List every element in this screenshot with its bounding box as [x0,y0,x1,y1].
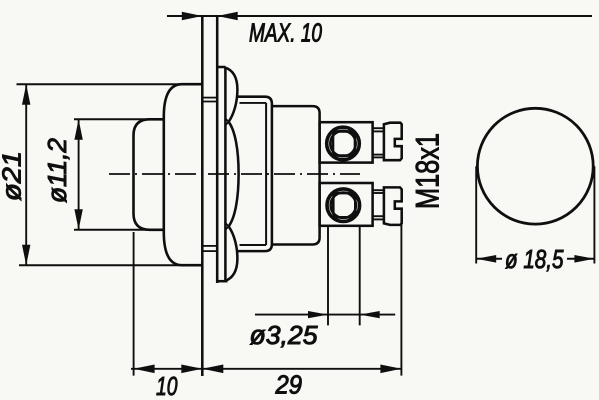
thread minor line top [240,102,267,104]
extension line screw end [400,221,402,376]
dimension d18.5 extension lines [475,166,477,263]
flange cusp bottom [225,223,228,230]
extension line cap front [133,232,135,376]
arrow d18.5 right [574,255,594,263]
button cap front section [134,119,164,230]
flange bottom arc [224,226,237,281]
flange middle arc [229,122,239,227]
arrow d11.2 top [74,119,82,140]
svg-text:ø 18,5: ø 18,5 [505,244,564,274]
front view circle [477,108,593,224]
dimension d11.2 [78,119,80,230]
terminal ring top inner [330,131,355,156]
extension line d21 top [17,83,203,85]
arrow dim10 left [134,365,155,374]
arrow right of panel [217,12,238,20]
flange strip right edge [224,67,227,281]
terminal ring bottom inner [331,193,356,218]
terminal slot top [333,131,355,155]
arrow d21 bottom [22,245,30,266]
bottom dimension line [131,368,401,370]
housing body [272,106,320,244]
extension line d11.2 top [74,118,164,120]
arrow left of panel [182,12,203,20]
terminal block top [320,122,373,162]
panel left line [201,16,204,376]
screw top head [384,123,402,161]
terminal ring bottom outer [327,189,360,222]
arrow d18.5 left [476,255,496,263]
dimension d18.5 line [476,258,502,260]
arrow d21 top [22,84,30,105]
arrow d3.25 left [308,311,328,318]
thread minor line bottom [240,244,267,246]
screw bottom head [384,187,402,225]
arrow dim29 right [380,365,401,374]
thread in panel hole bottom [203,245,216,247]
flange top edge [217,66,225,69]
svg-text:ø3,25: ø3,25 [250,322,319,350]
button cap rear section [164,84,203,265]
thread in panel hole top [203,97,216,99]
arrow d3.25 right [360,311,380,318]
dimension d3.25 line [255,314,395,316]
centerline [109,173,360,175]
svg-text:10: 10 [156,371,178,400]
terminal slot bottom [333,193,355,217]
dimension d21 [25,84,27,265]
screw bottom neck lines [373,189,384,191]
thread outer profile [237,97,272,251]
dimension MAX. 10 line [167,15,592,17]
extension line d21 bottom [19,264,202,266]
terminal ring top outer [327,127,360,160]
terminal block bottom [320,183,373,226]
flange top arc [224,67,237,122]
arrow d11.2 bottom [74,209,82,230]
flange cusp top [225,119,228,126]
thread end face [265,103,267,245]
screw top neck lines [373,127,384,129]
dimension d3.25 extension lines [327,227,329,325]
svg-text:ø21: ø21 [0,151,27,201]
panel right line [216,16,219,283]
svg-text:ø11,2: ø11,2 [44,138,72,203]
svg-text:M18x1: M18x1 [410,133,446,209]
arrow dim10 right [181,365,202,374]
svg-text:29: 29 [275,370,302,400]
extension line d11.2 bottom [74,229,164,231]
svg-text:MAX. 10: MAX. 10 [249,20,322,48]
flange bottom edge [217,280,227,283]
arrow dim29 left [202,365,223,374]
